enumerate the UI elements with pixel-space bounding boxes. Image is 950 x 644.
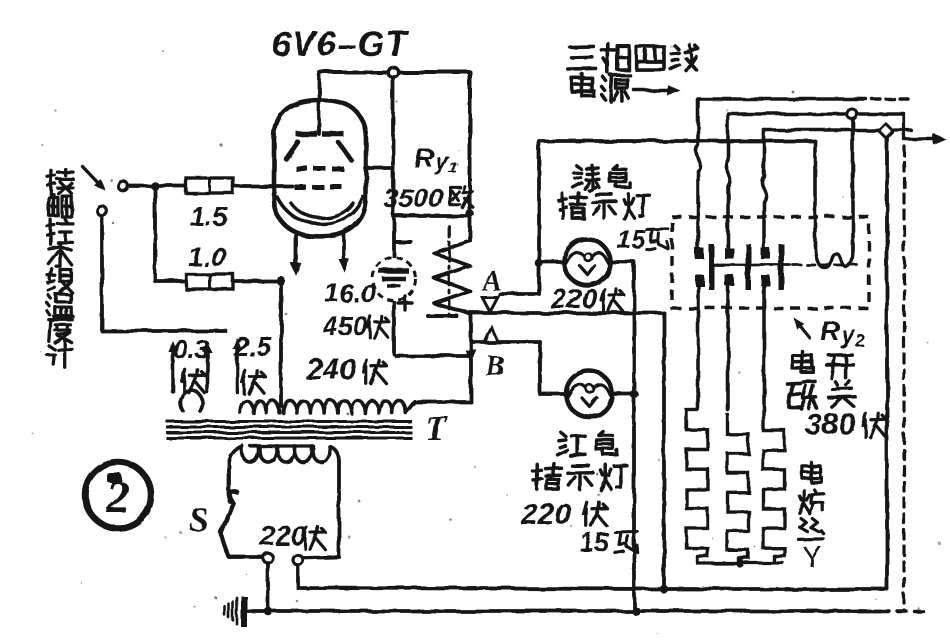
svg-text:R: R xyxy=(820,316,840,346)
svg-text:15: 15 xyxy=(617,224,646,254)
svg-text:16.0: 16.0 xyxy=(325,278,376,308)
svg-text:220: 220 xyxy=(520,498,571,531)
svg-text:T: T xyxy=(425,408,449,448)
svg-text:1: 1 xyxy=(449,160,458,177)
svg-text:6V6–GT: 6V6–GT xyxy=(272,25,410,64)
svg-text:220: 220 xyxy=(550,283,598,314)
svg-text:1.5: 1.5 xyxy=(190,202,229,232)
svg-text:S: S xyxy=(190,502,209,539)
svg-text:2.5: 2.5 xyxy=(233,332,273,362)
svg-text:450: 450 xyxy=(321,311,367,341)
svg-text:A: A xyxy=(481,266,502,297)
svg-text:380: 380 xyxy=(805,408,855,441)
svg-text:2: 2 xyxy=(854,331,865,350)
svg-text:3500: 3500 xyxy=(383,183,443,213)
svg-text:240: 240 xyxy=(305,353,356,386)
svg-text:y: y xyxy=(840,322,856,349)
svg-text:15: 15 xyxy=(580,527,609,557)
svg-text:Y: Y xyxy=(802,541,822,574)
svg-text:220: 220 xyxy=(259,520,307,551)
svg-text:0.3: 0.3 xyxy=(173,334,210,364)
svg-text:R: R xyxy=(414,143,434,173)
svg-text:B: B xyxy=(485,351,505,382)
svg-text:1.0: 1.0 xyxy=(188,242,226,272)
